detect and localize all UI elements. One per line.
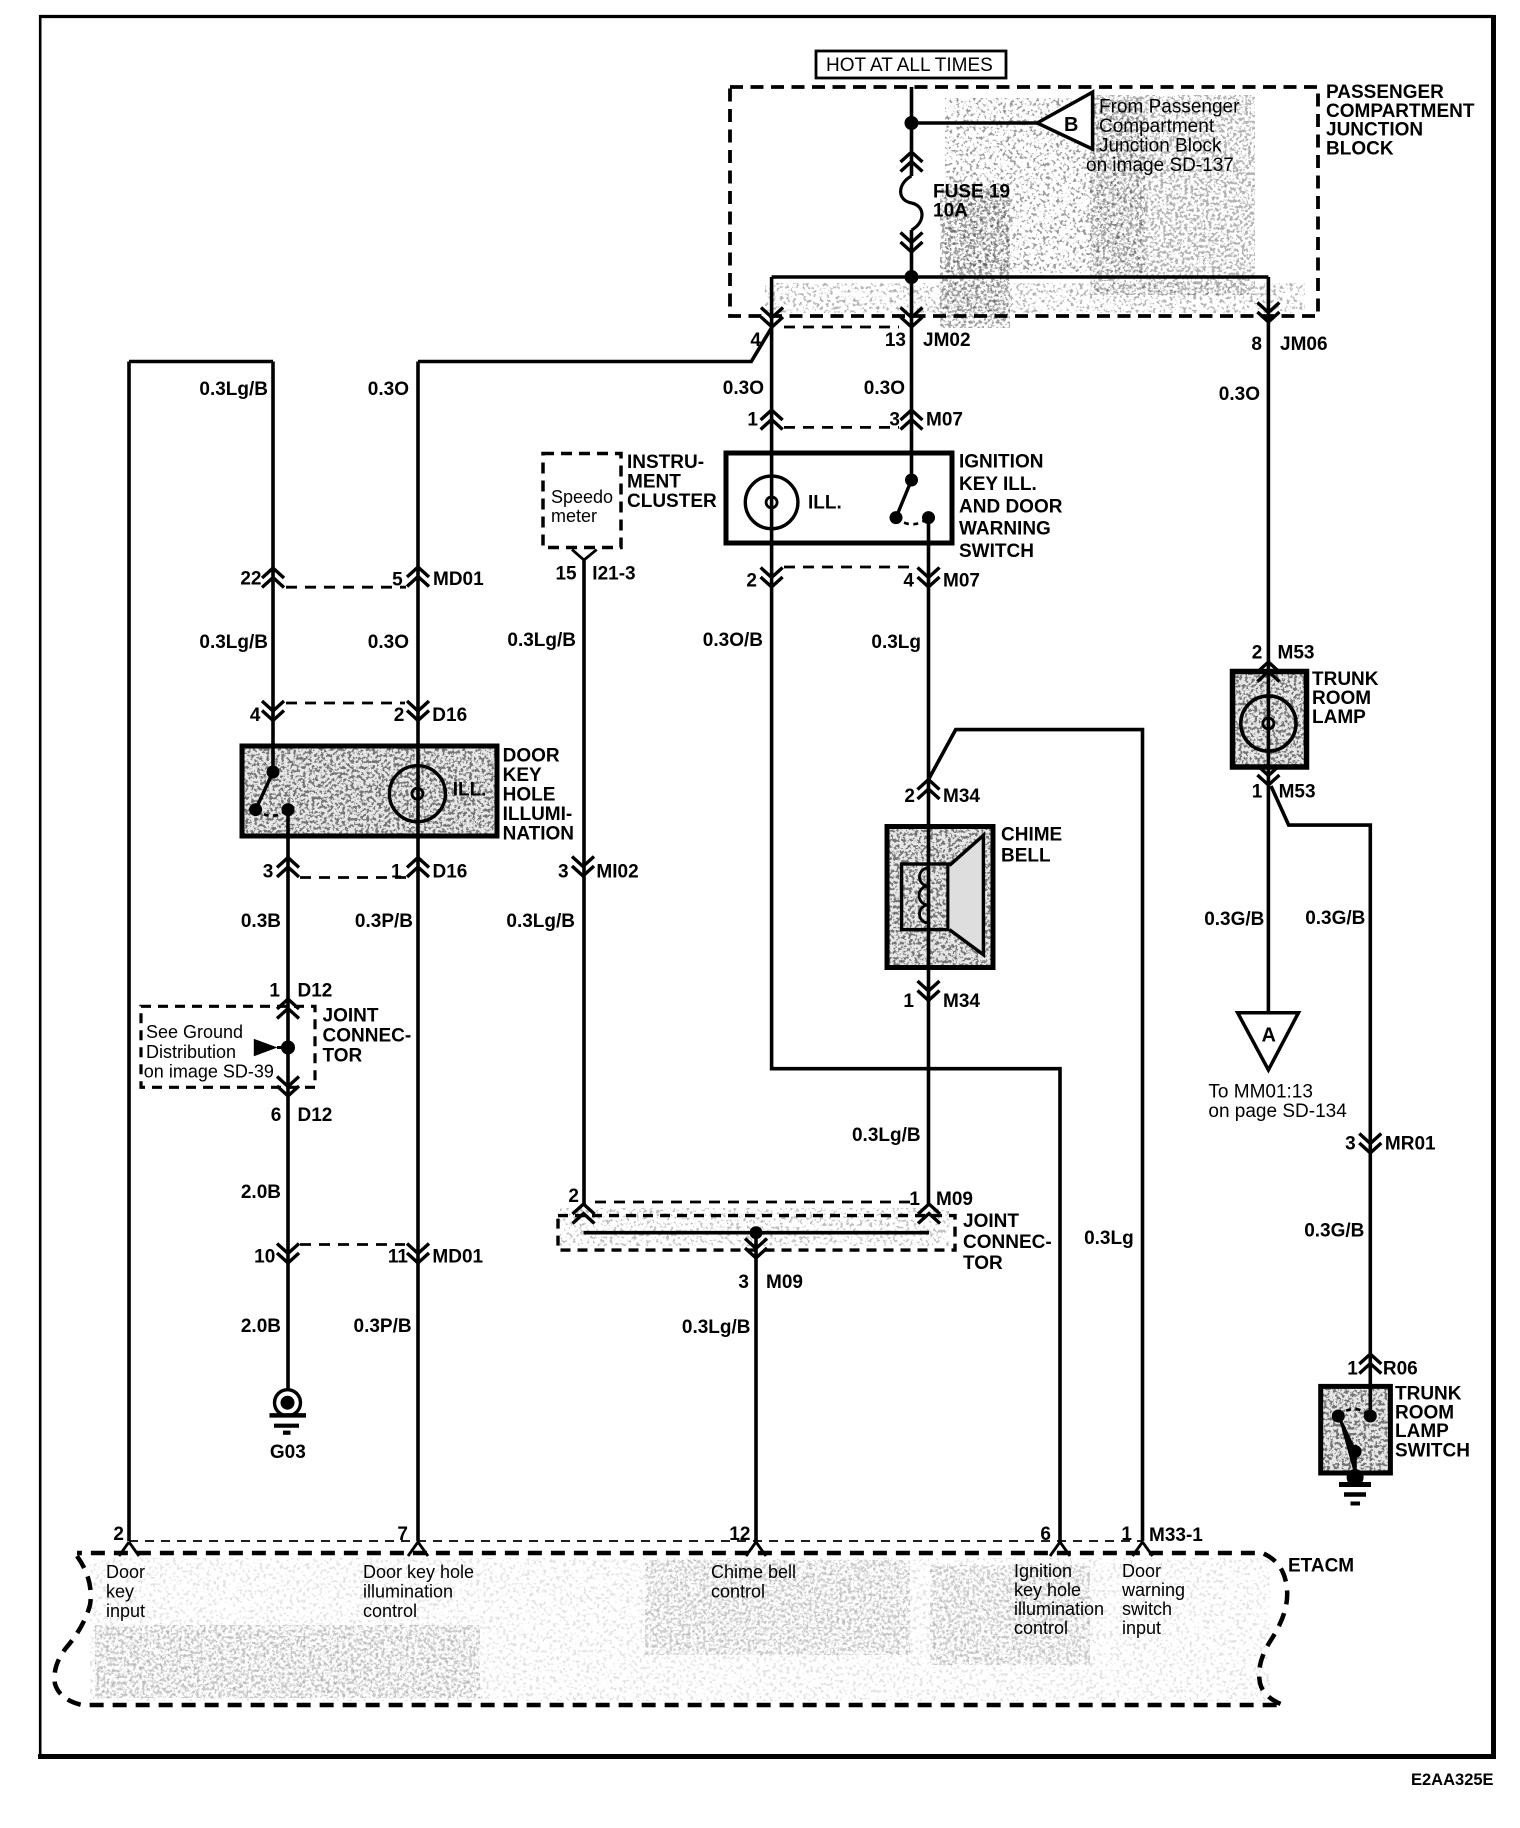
svg-text:4: 4 (250, 705, 261, 726)
svg-text:KEY: KEY (503, 765, 542, 786)
svg-text:See Ground: See Ground (146, 1022, 243, 1042)
svg-text:I21-3: I21-3 (592, 564, 635, 585)
svg-text:Ignition: Ignition (1014, 1561, 1072, 1581)
svg-text:CHIME: CHIME (1001, 825, 1062, 846)
svg-text:Distribution: Distribution (146, 1042, 236, 1062)
svg-text:on page SD-134: on page SD-134 (1208, 1101, 1347, 1122)
svg-text:4: 4 (903, 571, 914, 592)
svg-text:M07: M07 (943, 571, 980, 592)
svg-text:0.3O: 0.3O (723, 378, 764, 399)
svg-text:switch: switch (1122, 1599, 1172, 1619)
svg-text:M53: M53 (1278, 643, 1315, 664)
svg-text:illumination: illumination (363, 1582, 453, 1602)
svg-text:JM02: JM02 (923, 330, 971, 351)
svg-text:control: control (711, 1582, 765, 1602)
svg-text:From Passenger: From Passenger (1099, 97, 1240, 118)
svg-text:control: control (1014, 1618, 1068, 1638)
svg-text:D12: D12 (298, 981, 333, 1002)
svg-text:0.3Lg/B: 0.3Lg/B (199, 632, 268, 653)
svg-text:MR01: MR01 (1385, 1134, 1436, 1155)
svg-text:on image SD-137: on image SD-137 (1086, 155, 1234, 176)
svg-text:IGNITION: IGNITION (959, 452, 1043, 473)
svg-text:M09: M09 (766, 1272, 803, 1293)
svg-text:BELL: BELL (1001, 846, 1051, 867)
svg-text:FUSE 19: FUSE 19 (933, 182, 1010, 203)
svg-text:1: 1 (747, 410, 758, 431)
svg-text:D12: D12 (298, 1105, 333, 1126)
svg-text:3: 3 (738, 1272, 749, 1293)
svg-text:13: 13 (885, 330, 906, 351)
svg-text:M34: M34 (943, 786, 980, 807)
svg-text:D16: D16 (433, 862, 468, 883)
svg-text:2.0B: 2.0B (241, 1316, 281, 1337)
svg-text:0.3P/B: 0.3P/B (355, 911, 413, 932)
svg-text:M07: M07 (926, 410, 963, 431)
svg-text:1: 1 (1121, 1524, 1132, 1545)
svg-text:15: 15 (555, 564, 577, 585)
svg-text:Door: Door (1122, 1561, 1161, 1581)
svg-text:1: 1 (391, 862, 402, 883)
svg-text:M34: M34 (943, 991, 980, 1012)
svg-text:key hole: key hole (1014, 1580, 1081, 1600)
svg-text:MENT: MENT (627, 472, 681, 493)
svg-text:0.3Lg/B: 0.3Lg/B (506, 911, 575, 932)
svg-text:CONNEC-: CONNEC- (963, 1232, 1052, 1253)
svg-text:D16: D16 (432, 705, 467, 726)
svg-text:warning: warning (1121, 1580, 1185, 1600)
svg-text:0.3G/B: 0.3G/B (1304, 1221, 1364, 1242)
svg-text:AND DOOR: AND DOOR (959, 496, 1063, 517)
svg-text:0.3Lg/B: 0.3Lg/B (852, 1125, 921, 1146)
svg-text:JOINT: JOINT (963, 1211, 1019, 1232)
svg-text:TOR: TOR (963, 1253, 1003, 1274)
svg-text:3: 3 (558, 862, 569, 883)
svg-text:0.3Lg: 0.3Lg (1084, 1228, 1134, 1249)
svg-text:SWITCH: SWITCH (959, 541, 1034, 562)
svg-text:0.3Lg/B: 0.3Lg/B (682, 1317, 751, 1338)
svg-text:5: 5 (392, 570, 403, 591)
svg-text:JM06: JM06 (1280, 334, 1328, 355)
svg-text:2: 2 (904, 786, 915, 807)
svg-text:SWITCH: SWITCH (1395, 1440, 1470, 1461)
svg-text:0.3G/B: 0.3G/B (1305, 908, 1365, 929)
svg-text:0.3Lg/B: 0.3Lg/B (507, 630, 576, 651)
svg-text:2: 2 (394, 705, 405, 726)
svg-text:1: 1 (903, 991, 914, 1012)
svg-text:0.3O: 0.3O (368, 379, 409, 400)
svg-text:ILL.: ILL. (453, 780, 487, 801)
svg-text:CLUSTER: CLUSTER (627, 491, 717, 512)
svg-text:HOLE: HOLE (503, 785, 556, 806)
svg-text:M09: M09 (936, 1189, 973, 1210)
svg-text:3: 3 (889, 410, 900, 431)
svg-text:MI02: MI02 (596, 862, 638, 883)
svg-text:7: 7 (397, 1524, 408, 1545)
svg-text:3: 3 (263, 862, 274, 883)
svg-text:input: input (1122, 1618, 1161, 1638)
svg-text:0.3Lg/B: 0.3Lg/B (199, 379, 268, 400)
svg-text:NATION: NATION (503, 824, 574, 845)
svg-text:A: A (1262, 1025, 1276, 1047)
svg-text:ROOM: ROOM (1312, 688, 1371, 709)
svg-text:INSTRU-: INSTRU- (627, 452, 704, 473)
svg-text:2.0B: 2.0B (241, 1182, 281, 1203)
svg-text:WARNING: WARNING (959, 519, 1051, 540)
svg-text:KEY ILL.: KEY ILL. (959, 474, 1037, 495)
svg-text:E2AA325E: E2AA325E (1411, 1771, 1494, 1789)
svg-text:M33-1: M33-1 (1149, 1525, 1203, 1546)
svg-text:12: 12 (729, 1524, 750, 1545)
svg-text:22: 22 (240, 569, 261, 590)
svg-text:3: 3 (1345, 1134, 1356, 1155)
svg-text:0.3G/B: 0.3G/B (1204, 909, 1264, 930)
svg-text:on image SD-39: on image SD-39 (144, 1062, 274, 1082)
svg-text:Chime bell: Chime bell (711, 1562, 796, 1582)
svg-text:Door: Door (106, 1562, 145, 1582)
svg-text:ETACM: ETACM (1288, 1556, 1354, 1577)
svg-text:2: 2 (1252, 643, 1263, 664)
svg-text:6: 6 (271, 1105, 282, 1126)
svg-text:ILLUMI-: ILLUMI- (503, 804, 573, 825)
svg-text:1: 1 (269, 981, 280, 1002)
svg-text:BLOCK: BLOCK (1326, 138, 1394, 159)
svg-text:TOR: TOR (323, 1046, 363, 1067)
svg-text:2: 2 (746, 571, 757, 592)
svg-text:CONNEC-: CONNEC- (323, 1026, 412, 1047)
svg-text:1: 1 (1252, 782, 1263, 803)
svg-text:6: 6 (1040, 1524, 1051, 1545)
svg-text:To MM01:13: To MM01:13 (1208, 1082, 1313, 1103)
svg-text:PASSENGER: PASSENGER (1326, 82, 1444, 103)
svg-text:MD01: MD01 (433, 569, 484, 590)
svg-text:0.3B: 0.3B (241, 911, 281, 932)
svg-text:TRUNK: TRUNK (1312, 669, 1379, 690)
svg-text:8: 8 (1251, 334, 1262, 355)
svg-text:0.3O: 0.3O (864, 378, 905, 399)
svg-text:LAMP: LAMP (1312, 707, 1366, 728)
svg-text:0.3O: 0.3O (1219, 384, 1260, 405)
svg-text:ILL.: ILL. (808, 493, 842, 514)
svg-text:1: 1 (909, 1189, 920, 1210)
svg-text:illumination: illumination (1014, 1599, 1104, 1619)
svg-text:G03: G03 (270, 1442, 306, 1463)
svg-text:0.3Lg: 0.3Lg (871, 632, 921, 653)
svg-text:R06: R06 (1383, 1359, 1418, 1380)
svg-text:JOINT: JOINT (323, 1006, 379, 1027)
svg-text:11: 11 (388, 1247, 409, 1268)
svg-text:2: 2 (568, 1186, 579, 1207)
svg-text:HOT AT ALL TIMES: HOT AT ALL TIMES (826, 55, 993, 76)
svg-text:1: 1 (1347, 1359, 1358, 1380)
svg-text:B: B (1064, 114, 1078, 136)
svg-text:2: 2 (113, 1524, 124, 1545)
svg-text:MD01: MD01 (432, 1247, 483, 1268)
svg-text:LAMP: LAMP (1395, 1421, 1449, 1442)
svg-text:0.3P/B: 0.3P/B (354, 1316, 412, 1337)
svg-text:key: key (106, 1582, 134, 1602)
svg-text:Junction Block: Junction Block (1099, 136, 1222, 157)
svg-text:Speedo: Speedo (551, 487, 613, 507)
svg-text:DOOR: DOOR (503, 746, 560, 767)
svg-text:input: input (106, 1601, 145, 1621)
svg-text:meter: meter (551, 506, 597, 526)
svg-text:0.3O/B: 0.3O/B (703, 630, 763, 651)
svg-text:0.3O: 0.3O (368, 632, 409, 653)
svg-text:10: 10 (254, 1247, 275, 1268)
svg-text:control: control (363, 1601, 417, 1621)
svg-text:10A: 10A (933, 201, 968, 222)
svg-text:M53: M53 (1279, 782, 1316, 803)
svg-text:4: 4 (750, 330, 761, 351)
svg-text:Compartment: Compartment (1099, 116, 1215, 137)
svg-text:Door key hole: Door key hole (363, 1562, 474, 1582)
